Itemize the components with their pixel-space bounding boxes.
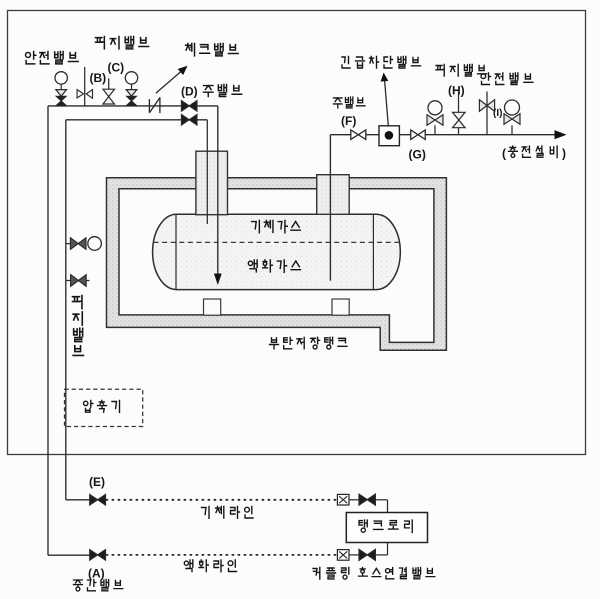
liquid line solid stub (48, 554, 90, 556)
label 기체라인 (202, 507, 254, 519)
svg-text:(E): (E) (89, 475, 105, 489)
svg-text:(D): (D) (181, 85, 198, 99)
purge branch valve with gauge circle (66, 243, 70, 245)
tank liquid level dashed centerline (154, 241, 400, 243)
svg-text:(A): (A) (88, 567, 105, 581)
svg-text:(C): (C) (108, 61, 125, 75)
label 퍼지밸브 (vertical) (73, 296, 84, 356)
label 중간밸브 (73, 580, 122, 591)
liquid line dashed (액화라인) (106, 554, 338, 556)
label 호스연결밸브 (358, 568, 434, 579)
hose connection valve gas (349, 499, 359, 501)
svg-text:(I): (I) (493, 108, 502, 119)
label 퍼지밸브 (top-left) (96, 37, 149, 49)
tank lorry box (346, 513, 427, 543)
tank head seam right (372, 215, 374, 290)
butane storage tank shell (153, 214, 401, 289)
safety relief valve on stem (486, 92, 488, 135)
check valve symbol (148, 99, 150, 113)
pipe2 left riser down to gas line (65, 120, 67, 500)
pipe2 drop into tank nozzle (vapor) (206, 120, 208, 224)
tank top nozzle left (196, 151, 228, 215)
purge valve (H) (458, 128, 460, 135)
label 안전밸브 (top-left) (26, 52, 79, 64)
dip tube arrowhead in tank (214, 274, 222, 286)
svg-text:(F): (F) (341, 114, 356, 128)
plant boundary frame (8, 11, 586, 455)
label 주밸브 (F) (333, 97, 365, 108)
pipe1 left riser down to liquid line (47, 106, 49, 555)
branch safety valve w/ circle 1 (434, 125, 436, 134)
safety valve assembly left-1 (55, 72, 67, 84)
label 퍼지밸브 (H) (436, 65, 487, 77)
coupling X-box gas (337, 494, 349, 505)
purge valve (C) globe (108, 78, 110, 89)
compressor dashed box (65, 389, 143, 426)
label 탱크로리 (359, 520, 412, 532)
gas line valve (E) (90, 495, 106, 506)
svg-text:(H): (H) (448, 84, 465, 98)
annotation arrow to emergency valve label (385, 81, 389, 126)
gas header pipe1 (top, y=106) (48, 105, 218, 107)
pipe1 drop into tank nozzle (217, 106, 219, 274)
gas line solid stub (66, 499, 90, 501)
liquid line valve (A) (90, 550, 106, 561)
vent stub with valve (B) (84, 67, 86, 106)
gas line dashed (기체라인) (106, 499, 338, 501)
label 액화가스 (liquid) (248, 260, 300, 272)
tank head seam left (175, 215, 177, 290)
label 안전밸브 (right) (481, 73, 533, 85)
safety valve assembly left-2 (125, 72, 137, 84)
valve (G) (411, 130, 426, 140)
svg-text:(: ( (502, 147, 506, 161)
tank top nozzle right (317, 175, 350, 215)
purge branch valve lower (66, 280, 71, 282)
label 압축기 (84, 401, 120, 413)
main valve (D) upper (181, 101, 197, 112)
main valve (F) (351, 130, 366, 140)
tank support leg right (332, 299, 349, 315)
label 부탄저장탱크 (270, 337, 348, 349)
tank enclosure dike wall (107, 178, 447, 350)
hose connection valve liquid (349, 554, 359, 556)
label 기체가스 (vapor) (252, 221, 301, 233)
delivery arrowhead (555, 130, 567, 139)
label 체크밸브 (186, 44, 239, 56)
svg-text:(G): (G) (409, 148, 426, 162)
coupling X-box liquid (337, 550, 349, 561)
main delivery pipe to filling (330, 134, 564, 136)
branch safety valve w/ circle 2 (I) (511, 125, 513, 134)
svg-text:(B): (B) (90, 71, 107, 85)
tank support leg left (204, 299, 221, 315)
annotation arrow to check valve label (156, 70, 183, 94)
emergency shutoff valve box (379, 126, 399, 146)
main valve (D) lower (181, 115, 197, 126)
vapor header pipe2 (y=119.8) (66, 119, 208, 121)
liquid withdrawal line from tank (329, 135, 331, 281)
label 커플링 (313, 568, 349, 580)
label 액화라인 (184, 560, 236, 572)
label 긴급차단밸브 (342, 57, 421, 69)
svg-text:): ) (562, 147, 566, 161)
